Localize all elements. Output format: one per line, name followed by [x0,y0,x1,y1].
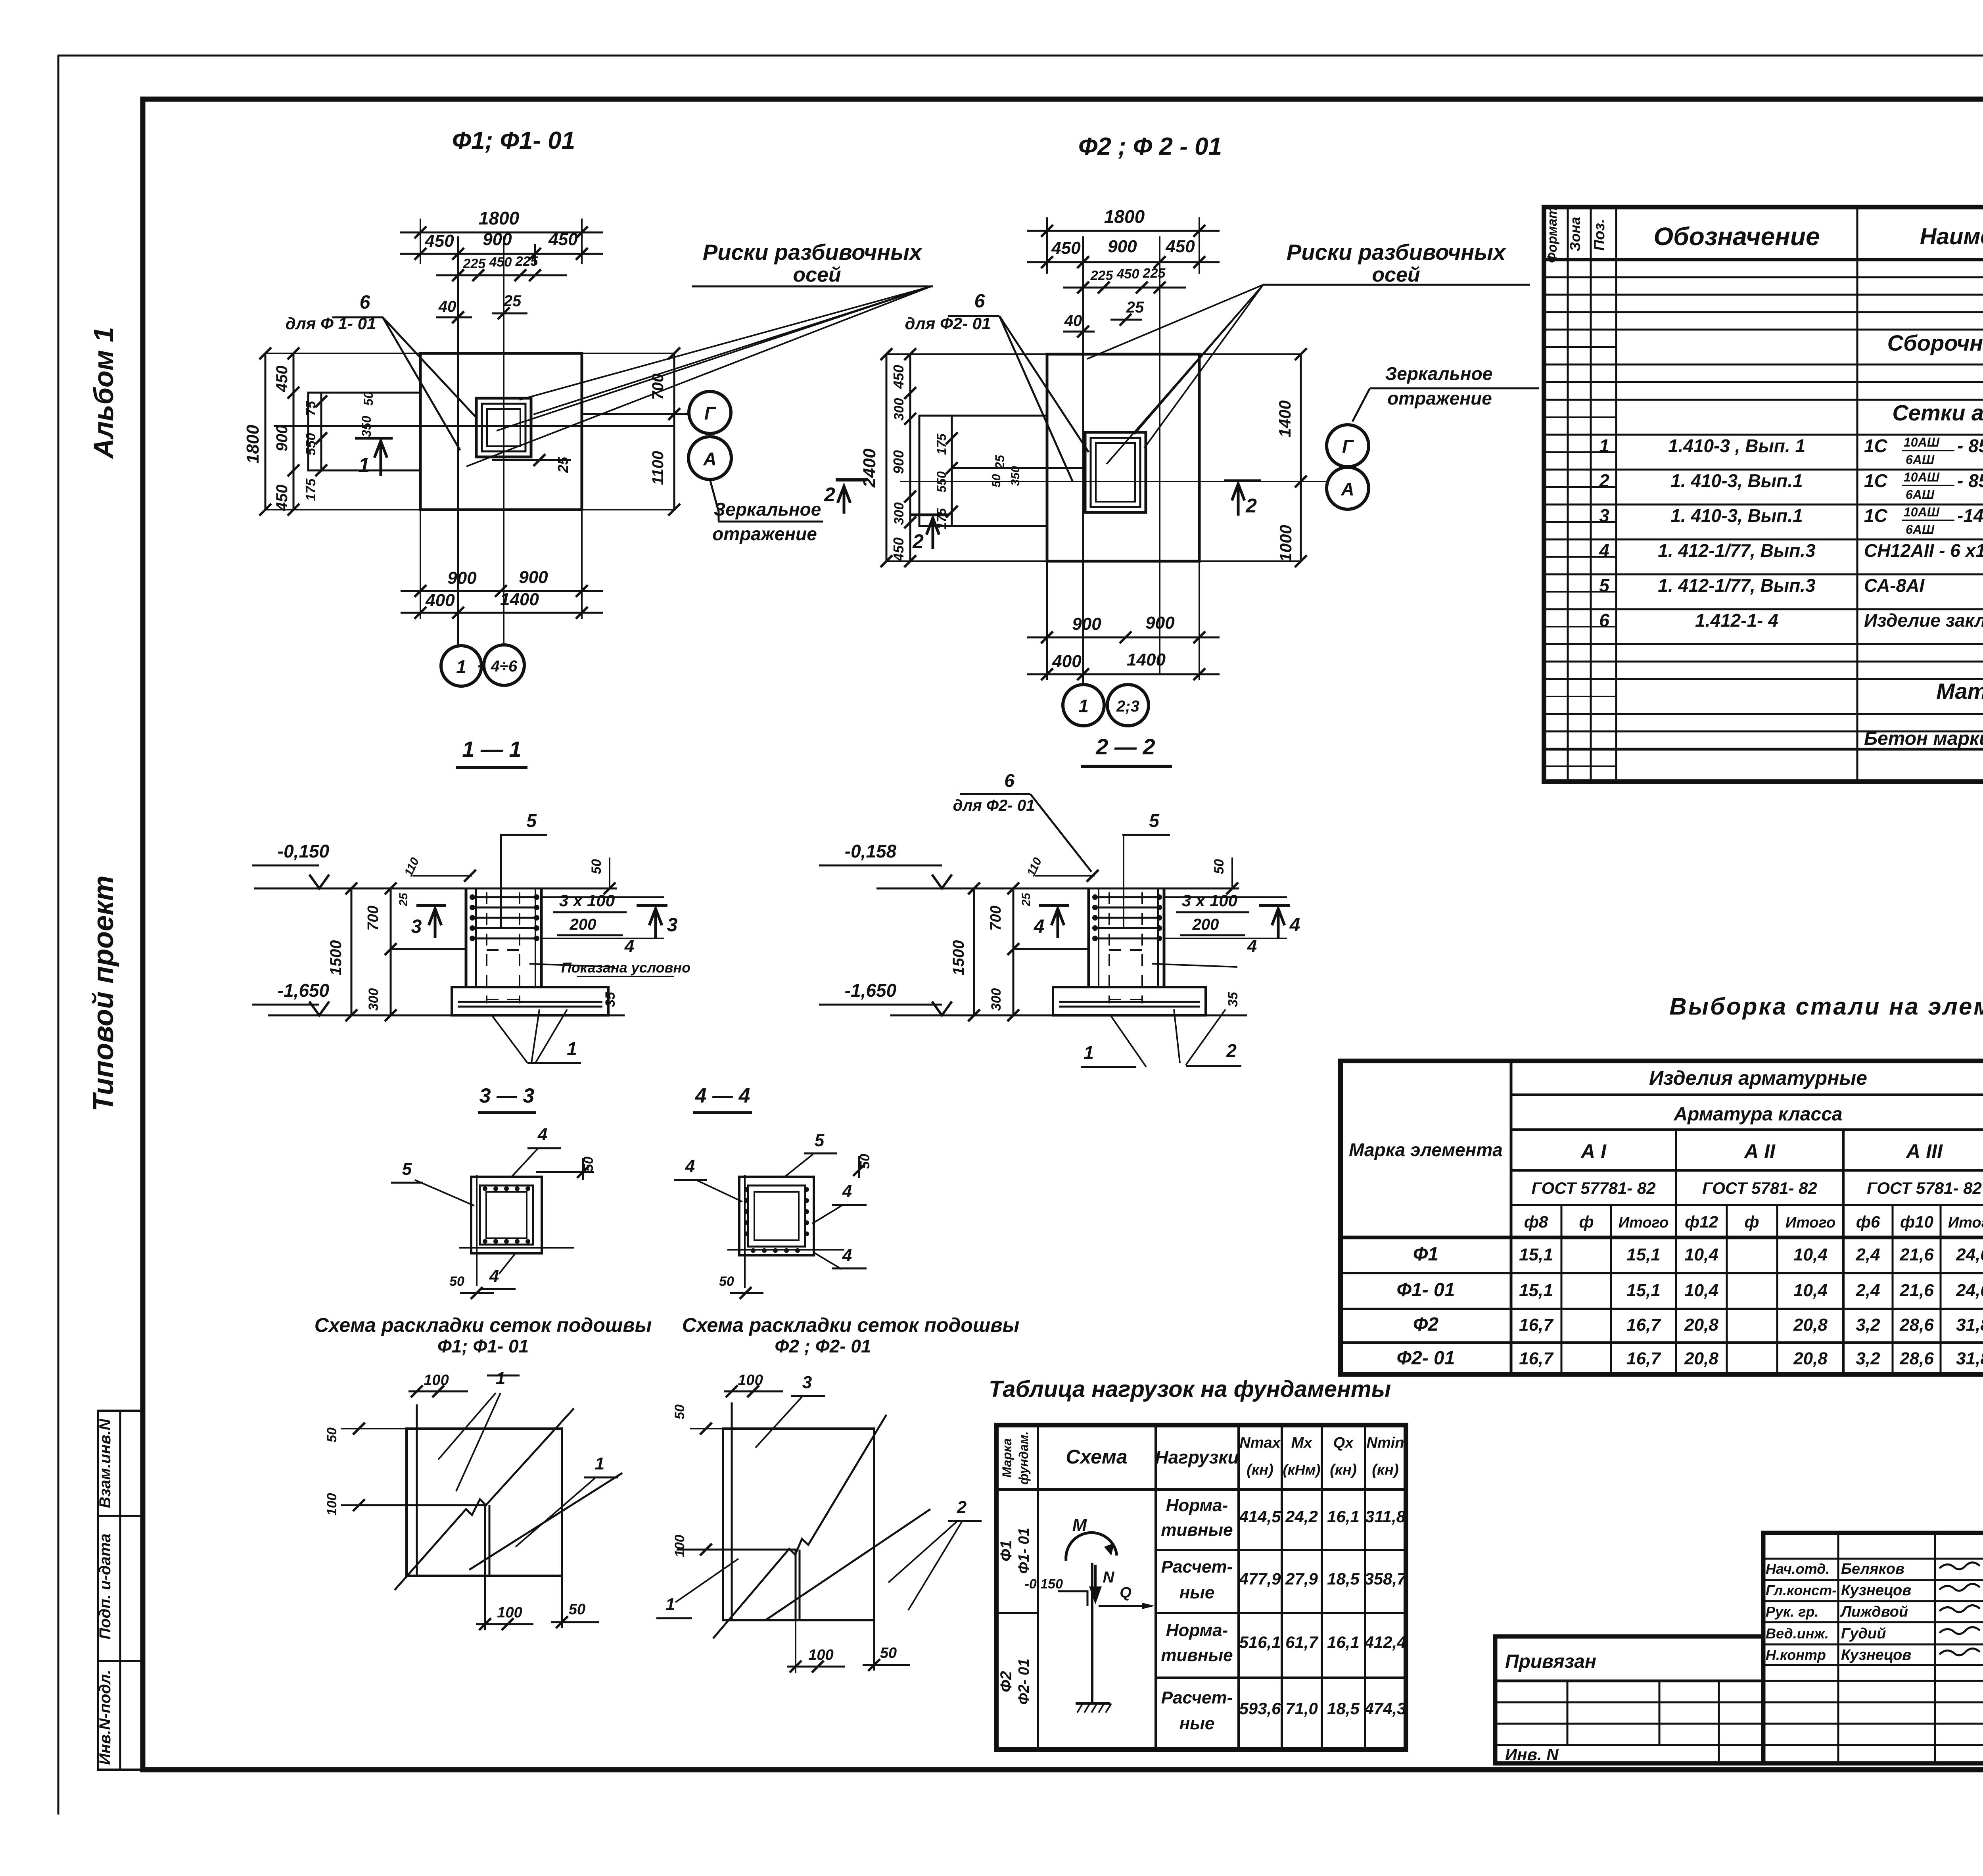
svg-text:ГОСТ 57781- 82: ГОСТ 57781- 82 [1531,1179,1655,1197]
svg-text:900: 900 [1108,237,1137,256]
svg-text:Таблица нагрузок на фундаменты: Таблица нагрузок на фундаменты [989,1376,1391,1402]
svg-text:1800: 1800 [243,425,263,464]
svg-text:1С: 1С [1864,505,1888,526]
svg-text:тивные: тивные [1161,1646,1233,1665]
plan F1 top dims [420,219,421,264]
svg-text:для Ф 1- 01: для Ф 1- 01 [286,314,376,333]
svg-text:225: 225 [1143,266,1166,281]
svg-text:10,4: 10,4 [1793,1245,1828,1264]
svg-text:4: 4 [537,1125,547,1144]
svg-text:5: 5 [1599,575,1610,596]
svg-text:4: 4 [842,1246,852,1265]
svg-text:15,1: 15,1 [1519,1245,1553,1264]
svg-text:Расчет-: Расчет- [1161,1557,1233,1577]
svg-text:Рук. гр.: Рук. гр. [1766,1604,1819,1620]
svg-text:М: М [1072,1515,1087,1535]
svg-text:16,7: 16,7 [1626,1315,1661,1335]
svg-text:Ф1: Ф1 [1413,1244,1438,1265]
svg-text:10,4: 10,4 [1793,1281,1828,1300]
svg-text:Кузнецов: Кузнецов [1841,1647,1911,1663]
plan F1 zerkalnoe text [710,480,719,521]
section 2-2 anchor bolts dashed [1108,892,1110,1003]
sheet outer thin top line [58,55,1983,57]
section 1-1 ground bottom line [268,1015,625,1017]
plan F2 axes [1082,236,1084,685]
svg-text:Норма-: Норма- [1166,1496,1228,1515]
svg-text:Нач.отд.: Нач.отд. [1766,1561,1830,1577]
svg-text:18,5: 18,5 [1327,1569,1360,1588]
svg-text:2: 2 [1245,495,1257,517]
svg-text:5: 5 [815,1131,825,1150]
svg-text:16,1: 16,1 [1327,1507,1360,1526]
section 3-3 body [471,1177,542,1253]
svg-text:2,4: 2,4 [1855,1281,1880,1300]
svg-text:100: 100 [324,1493,339,1516]
svg-text:осей: осей [793,263,841,286]
section 2-2 section mark right [1259,904,1290,907]
scheme F1 diagonal mesh 1 [395,1408,574,1590]
svg-text:10АШ: 10АШ [1904,505,1940,519]
svg-text:Риски разбивочных: Риски разбивочных [1287,240,1507,265]
svg-text:450: 450 [273,366,291,393]
svg-text:Гл.конст-: Гл.конст- [1766,1582,1837,1598]
svg-text:477,9: 477,9 [1239,1569,1281,1588]
svg-text:Схема: Схема [1066,1446,1127,1468]
svg-text:18,5: 18,5 [1327,1699,1360,1718]
plan F2 bottom dims [1046,561,1048,680]
svg-text:25: 25 [1020,892,1033,907]
svg-text:1: 1 [1599,435,1609,456]
plan F1 axis circles [441,646,481,686]
svg-text:Изделия арматурные: Изделия арматурные [1649,1067,1867,1089]
svg-text:40: 40 [438,298,456,315]
svg-text:Ф2 ; Ф2- 01: Ф2 ; Ф2- 01 [775,1336,871,1356]
svg-text:Ф2 ; Ф 2 - 01: Ф2 ; Ф 2 - 01 [1078,133,1222,160]
loads table schema sketch [1091,1563,1093,1703]
svg-text:Итого: Итого [1948,1214,1983,1231]
svg-text:4 — 4: 4 — 4 [695,1084,750,1107]
svg-text:4: 4 [842,1182,852,1201]
svg-text:1500: 1500 [950,940,967,976]
svg-text:50: 50 [1212,859,1227,874]
svg-text:16,7: 16,7 [1519,1349,1554,1368]
svg-text:ф: ф [1744,1212,1759,1231]
svg-text:3,2: 3,2 [1856,1349,1880,1368]
section 2-2 dims right 3x100 200 [1164,896,1287,898]
svg-text:Q: Q [1120,1584,1131,1601]
svg-text:1. 412-1/77, Вып.3: 1. 412-1/77, Вып.3 [1658,540,1816,561]
svg-text:ф: ф [1579,1212,1594,1231]
svg-text:50: 50 [569,1601,585,1618]
svg-text:Н.контр: Н.контр [1766,1647,1826,1663]
svg-text:1400: 1400 [500,590,539,609]
section 2-2 dims left [973,888,975,1015]
plan F2 column pocket [1085,432,1146,512]
section 1-1 section mark right [637,904,667,907]
svg-text:Схема раскладки сеток подошвы: Схема раскладки сеток подошвы [315,1314,652,1336]
svg-text:-1,650: -1,650 [278,980,330,1001]
svg-text:550: 550 [934,471,949,493]
svg-text:27,9: 27,9 [1285,1569,1318,1588]
svg-text:50: 50 [449,1274,464,1289]
svg-text:15,1: 15,1 [1626,1281,1661,1300]
svg-text:Сборочные единицы: Сборочные единицы [1887,330,1983,355]
svg-text:Итого: Итого [1619,1214,1668,1231]
svg-text:474,3: 474,3 [1364,1699,1406,1718]
svg-text:2: 2 [912,530,924,552]
svg-text:28,6: 28,6 [1899,1349,1934,1368]
section 3-3 whisker lines [476,1175,478,1286]
svg-text:-0,150: -0,150 [278,841,330,861]
svg-text:25: 25 [503,292,522,310]
section 1-1 label 5 leader [500,834,547,836]
svg-text:61,7: 61,7 [1285,1633,1318,1652]
svg-text:5: 5 [1149,810,1160,831]
svg-text:31,8: 31,8 [1956,1315,1983,1335]
svg-text:450: 450 [890,537,907,562]
svg-text:175: 175 [303,478,318,501]
svg-text:15,1: 15,1 [1519,1281,1553,1300]
svg-text:Наименование: Наименование [1920,224,1983,249]
svg-text:Зона: Зона [1567,217,1583,251]
svg-text:25: 25 [1126,299,1144,316]
svg-text:1С: 1С [1864,470,1888,491]
svg-text:24,0: 24,0 [1956,1281,1983,1300]
svg-text:отражение: отражение [1387,388,1492,409]
section 1-1 footing [452,987,608,1015]
svg-text:450: 450 [890,365,907,389]
section 2-2 stirrups [1093,896,1161,898]
svg-text:400: 400 [1052,652,1082,671]
svg-text:-0,150: -0,150 [1025,1577,1063,1592]
svg-text:ф8: ф8 [1524,1212,1548,1231]
section 1-1 section mark left [416,904,446,907]
svg-text:4: 4 [489,1266,499,1286]
svg-text:Типовой проект: Типовой проект [88,875,119,1111]
svg-text:1.412-1- 4: 1.412-1- 4 [1695,610,1778,631]
svg-text:Марка: Марка [1000,1439,1014,1478]
plan F1 column pocket [476,398,531,457]
svg-text:20,8: 20,8 [1793,1315,1828,1335]
svg-text:450: 450 [548,230,578,249]
svg-text:Ф2- 01: Ф2- 01 [1016,1659,1032,1705]
svg-text:- 85 x 235: - 85 x 235 [1957,470,1983,491]
scheme F2 square [723,1429,874,1620]
plan F2 mirror outline [919,416,1047,526]
svg-text:2: 2 [1599,470,1609,491]
svg-text:ные: ные [1179,1714,1215,1733]
plan F1 bottom dims [420,510,421,619]
svg-text:ф6: ф6 [1856,1212,1880,1231]
svg-text:-0,158: -0,158 [845,841,897,861]
svg-text:1 — 1: 1 — 1 [462,737,521,762]
svg-text:4: 4 [685,1157,695,1176]
svg-text:Норма-: Норма- [1166,1621,1228,1640]
svg-text:Итого: Итого [1785,1214,1835,1231]
svg-text:225: 225 [515,254,539,269]
svg-text:А I: А I [1580,1140,1607,1162]
svg-text:(кн): (кн) [1247,1462,1273,1478]
section 1-1 column walls [465,888,468,987]
svg-text:1400: 1400 [1127,650,1166,669]
svg-text:3: 3 [1599,505,1609,526]
svg-text:593,6: 593,6 [1239,1699,1281,1718]
svg-text:300: 300 [892,503,907,525]
svg-text:Г: Г [1342,436,1354,457]
svg-text:50: 50 [880,1645,897,1661]
svg-text:15,1: 15,1 [1626,1245,1661,1264]
svg-text:Нагрузки: Нагрузки [1155,1447,1239,1467]
svg-text:20,8: 20,8 [1684,1315,1718,1335]
svg-text:1: 1 [595,1454,604,1473]
plan F1 left dims [265,353,267,510]
svg-text:Вед.инж.: Вед.инж. [1766,1625,1829,1642]
svg-text:175: 175 [934,433,949,455]
svg-text:ГОСТ 5781- 82: ГОСТ 5781- 82 [1867,1179,1982,1197]
svg-text:Риски разбивочных: Риски разбивочных [703,240,923,265]
svg-text:40: 40 [1064,312,1082,330]
svg-text:5: 5 [526,810,537,831]
svg-text:900: 900 [890,450,907,474]
svg-text:50: 50 [324,1427,339,1442]
svg-text:25: 25 [993,455,1007,470]
section 1-1 stirrups [471,896,538,898]
svg-text:Ф1; Ф1- 01: Ф1; Ф1- 01 [437,1336,529,1356]
sheet outer thin left line [58,56,59,1815]
svg-text:Схема раскладки сеток подошвы: Схема раскладки сеток подошвы [682,1314,1020,1336]
svg-text:2: 2 [957,1498,967,1517]
svg-text:10,4: 10,4 [1684,1281,1718,1300]
svg-text:-1,650: -1,650 [845,980,897,1001]
svg-text:1. 412-1/77, Вып.3: 1. 412-1/77, Вып.3 [1658,575,1816,596]
svg-text:(кНм): (кНм) [1283,1462,1321,1478]
svg-text:4: 4 [1247,936,1257,956]
svg-text:Привязан: Привязан [1505,1651,1596,1672]
svg-text:4÷6: 4÷6 [491,658,518,675]
svg-text:А: А [1341,479,1354,499]
svg-text:Ф2- 01: Ф2- 01 [1397,1348,1455,1369]
svg-text:50: 50 [589,859,604,874]
svg-text:1. 410-3, Вып.1: 1. 410-3, Вып.1 [1670,505,1803,526]
svg-text:Мх: Мх [1291,1435,1313,1451]
svg-text:Ф1: Ф1 [997,1540,1015,1561]
svg-text:отражение: отражение [712,524,817,544]
svg-text:50: 50 [672,1404,687,1419]
svg-text:1: 1 [359,454,370,477]
svg-text:10АШ: 10АШ [1904,435,1940,449]
svg-text:1.410-3 , Вып. 1: 1.410-3 , Вып. 1 [1668,435,1805,456]
svg-text:16,1: 16,1 [1327,1633,1360,1652]
svg-text:Выборка стали на элем: Выборка стали на элемент, кг. [1669,993,1983,1020]
section 2-2 ground bottom line [890,1015,1247,1017]
scheme F1 diagonal mesh 2 [469,1473,622,1570]
svg-text:1800: 1800 [1104,206,1145,227]
svg-text:Ф1- 01: Ф1- 01 [1016,1528,1032,1574]
section 2-2 section mark left [1039,904,1069,907]
svg-text:ф10: ф10 [1900,1212,1933,1231]
svg-text:для Ф2- 01: для Ф2- 01 [953,797,1035,814]
svg-text:1С: 1С [1864,435,1888,456]
svg-text:550: 550 [303,433,318,456]
section 1-1 dims left [351,888,353,1015]
svg-text:350: 350 [359,416,374,437]
svg-text:Qх: Qх [1333,1435,1354,1451]
svg-text:200: 200 [1192,916,1219,933]
section 1-1 dims right 3x100 200 [541,896,664,898]
svg-text:2: 2 [824,483,835,506]
svg-text:50: 50 [990,474,1003,487]
svg-text:4: 4 [1289,915,1300,936]
svg-text:100: 100 [497,1604,522,1621]
svg-text:СН12АII - 6 x15: СН12АII - 6 x15 [1864,540,1983,561]
svg-text:900: 900 [1145,613,1175,633]
svg-text:900: 900 [273,425,291,452]
svg-text:Подп. и-дата: Подп. и-дата [96,1533,114,1639]
svg-text:Кузнецов: Кузнецов [1841,1582,1911,1599]
svg-text:1. 410-3, Вып.1: 1. 410-3, Вып.1 [1670,470,1803,491]
svg-text:(кн): (кн) [1372,1462,1399,1478]
svg-text:А II: А II [1743,1140,1776,1162]
plan F1 mirror circles G A [689,391,731,434]
plan F2 footprint [1047,354,1199,561]
plan F1 mark 2 arrow [843,486,846,514]
section 1-1 ground top line [254,888,617,890]
svg-text:4: 4 [624,936,634,956]
plan F1 footprint [420,353,582,510]
svg-text:225: 225 [1090,268,1114,283]
svg-text:10,4: 10,4 [1684,1245,1718,1264]
svg-text:10АШ: 10АШ [1904,470,1940,484]
svg-text:1: 1 [1078,696,1089,716]
section 4-4 body [739,1177,814,1255]
svg-text:414,5: 414,5 [1239,1507,1281,1526]
svg-text:2,4: 2,4 [1855,1245,1880,1264]
svg-text:6: 6 [360,292,370,313]
svg-text:1800: 1800 [479,208,520,228]
svg-text:20,8: 20,8 [1684,1349,1718,1368]
svg-text:900: 900 [447,568,477,588]
section 1-1 bottom leader 1 [492,1015,527,1063]
svg-text:Марка элемента: Марка элемента [1349,1139,1503,1160]
svg-text:2;3: 2;3 [1116,698,1139,715]
svg-text:25: 25 [555,457,571,473]
svg-text:6АШ: 6АШ [1906,453,1935,467]
svg-text:900: 900 [483,230,512,249]
svg-text:16,7: 16,7 [1626,1349,1661,1368]
svg-text:Изделие закладное МН1: Изделие закладное МН1 [1864,610,1983,631]
svg-text:3,2: 3,2 [1856,1315,1880,1335]
svg-text:Ф2: Ф2 [997,1671,1015,1692]
svg-text:А III: А III [1905,1140,1943,1162]
section 2-2 bottom leaders 1 2 [1110,1015,1146,1067]
svg-text:31,8: 31,8 [1956,1349,1983,1368]
svg-text:ГОСТ 5781- 82: ГОСТ 5781- 82 [1702,1179,1817,1197]
svg-text:тивные: тивные [1161,1520,1233,1540]
plan F1 section marks 1 [355,437,393,440]
svg-text:ные: ные [1179,1583,1215,1602]
svg-text:Ф1; Ф1- 01: Ф1; Ф1- 01 [452,127,575,154]
svg-text:-145 x 175: -145 x 175 [1957,505,1983,526]
svg-text:Беляков: Беляков [1841,1561,1904,1577]
svg-text:24,2: 24,2 [1285,1507,1318,1526]
svg-text:Nmax: Nmax [1239,1435,1281,1451]
svg-text:- 85 x 175: - 85 x 175 [1957,435,1983,456]
svg-text:28,6: 28,6 [1899,1315,1934,1335]
section 2-2 label 5 leader [1122,834,1170,836]
svg-text:24,0: 24,0 [1956,1245,1983,1264]
svg-text:Г: Г [704,403,716,424]
svg-text:ф12: ф12 [1685,1212,1718,1231]
svg-text:450: 450 [489,255,512,270]
svg-text:20,8: 20,8 [1793,1349,1828,1368]
svg-text:75: 75 [303,401,318,416]
svg-text:450: 450 [424,231,454,251]
svg-text:311,8: 311,8 [1365,1507,1406,1526]
svg-text:3: 3 [802,1373,812,1392]
plan F2 section marks 2 [910,514,948,516]
svg-text:Nmin: Nmin [1367,1435,1404,1451]
section 1-1 anchor bolts dashed [486,892,487,1003]
svg-text:Зеркальное: Зеркальное [714,499,821,520]
svg-text:1100: 1100 [649,451,667,485]
svg-text:Материалы: Материалы [1936,679,1983,704]
svg-text:50: 50 [719,1274,734,1289]
svg-text:Инв. N: Инв. N [1505,1745,1559,1764]
svg-text:6: 6 [974,291,985,312]
svg-text:300: 300 [989,988,1004,1011]
svg-text:100: 100 [424,1372,449,1389]
specification table [1544,207,1983,782]
svg-text:225: 225 [463,256,486,271]
svg-text:450: 450 [1051,238,1081,258]
svg-text:358,7: 358,7 [1364,1569,1407,1588]
svg-text:6: 6 [1599,610,1609,631]
svg-text:2: 2 [1226,1040,1237,1061]
svg-text:Лиждвой: Лиждвой [1840,1604,1908,1620]
plan F2 left dims [886,354,888,561]
svg-text:4: 4 [1599,540,1609,561]
svg-text:1: 1 [665,1595,675,1614]
plan F2 axis circles [1063,685,1104,726]
svg-text:71,0: 71,0 [1285,1699,1318,1718]
svg-text:516,1: 516,1 [1239,1633,1281,1652]
svg-text:1500: 1500 [327,940,345,976]
title block: signature table [1763,1533,1983,1763]
svg-text:3: 3 [667,915,678,936]
svg-text:3: 3 [411,916,422,937]
svg-text:300: 300 [366,988,381,1011]
svg-text:Ф1- 01: Ф1- 01 [1397,1279,1455,1301]
svg-text:Показана условно: Показана условно [561,959,690,976]
svg-text:450: 450 [1165,237,1195,256]
svg-text:Ф2: Ф2 [1413,1314,1438,1335]
svg-text:1400: 1400 [1275,400,1294,437]
svg-text:3 x 100: 3 x 100 [1182,891,1237,910]
svg-text:350: 350 [1009,466,1022,486]
svg-text:для Ф2- 01: для Ф2- 01 [905,314,991,333]
loads table [996,1425,1406,1749]
plan F1 axes [457,236,459,646]
svg-text:900: 900 [519,568,548,587]
svg-text:5: 5 [402,1159,412,1179]
svg-text:400: 400 [425,591,455,610]
svg-text:N: N [1103,1569,1115,1586]
scheme F2 diagonal mesh 1 [713,1415,886,1638]
plan F1 right dims [673,353,675,510]
section 2-2 ground top line [876,888,1239,890]
svg-text:Расчет-: Расчет- [1161,1688,1233,1707]
svg-text:1: 1 [567,1038,577,1059]
